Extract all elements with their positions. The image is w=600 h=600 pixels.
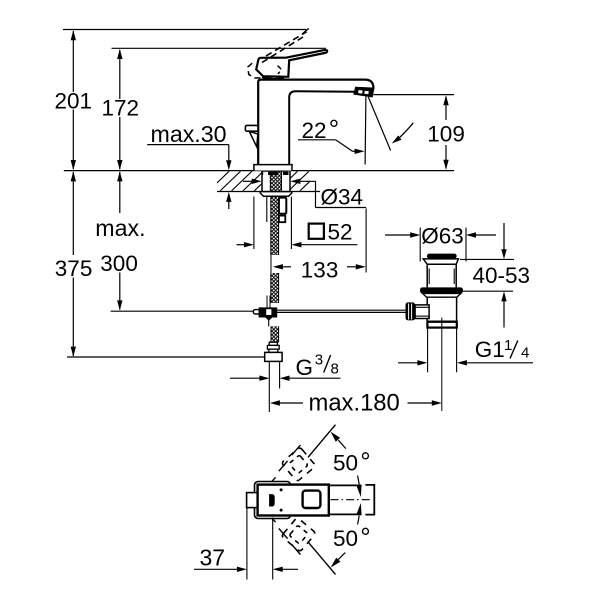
svg-text:50°: 50°: [333, 522, 371, 552]
screw dot upper: [280, 488, 283, 491]
countertop surface line: [64, 170, 454, 172]
svg-text:375: 375: [55, 256, 93, 281]
drain body: [427, 297, 456, 321]
screw dot lower: [280, 509, 283, 512]
threaded shank through counter: [262, 171, 291, 192]
dimension max.180 horizontal: [270, 390, 442, 417]
dimension 172 vertical: [102, 49, 140, 170]
dimension 201 vertical: [55, 30, 93, 170]
svg-text:max.180: max.180: [309, 390, 400, 417]
svg-text:max.: max.: [95, 215, 145, 241]
drain neck: [427, 264, 456, 287]
extension line hose connector level: [67, 356, 265, 358]
upper 50 degree ray: [272, 425, 346, 482]
dimension 22 degree leader: [298, 114, 365, 154]
pop-up rod tee fitting and rod: [111, 296, 406, 327]
faucet handle lever: [256, 50, 327, 79]
lower 50 degree arc arrow: [356, 503, 361, 525]
faucet body section: [258, 485, 329, 516]
svg-text:Ø34: Ø34: [321, 185, 364, 210]
dimension 133 horizontal: [273, 209, 366, 283]
svg-text:172: 172: [102, 96, 140, 121]
dimension max.30 leader: [147, 121, 231, 209]
svg-text:37: 37: [200, 544, 226, 570]
mounting nut: [260, 192, 292, 197]
handle rotated position lower dashed: [281, 517, 316, 552]
svg-text:40-53: 40-53: [473, 263, 531, 288]
svg-text:G1: G1: [475, 337, 505, 362]
dimension diameter 34 leader: [243, 179, 366, 210]
svg-text:300: 300: [100, 251, 138, 276]
lower 50 degree ray: [272, 518, 345, 574]
water stream vertical line: [364, 97, 367, 165]
countertop hatching: [206, 169, 346, 194]
dimension G3/8 thread: [230, 352, 341, 381]
drain washer: [423, 293, 461, 297]
dimension G1 1/4 thread: [398, 337, 533, 366]
countertop bottom line: [217, 191, 320, 193]
extension line top of faucet (172): [112, 47, 327, 49]
upper 50 degree arc arrow: [356, 476, 361, 498]
svg-text:1: 1: [504, 337, 512, 354]
svg-text:50°: 50°: [333, 447, 371, 477]
faucet body outline: [258, 80, 373, 165]
svg-text:133: 133: [301, 257, 339, 282]
svg-text:8: 8: [331, 361, 339, 378]
dimension diameter 63: [385, 224, 496, 262]
pop-up lift rod knob: [245, 125, 258, 146]
drain tailpiece G1 1/4: [428, 328, 457, 373]
drain lever knob: [406, 302, 430, 320]
escutcheon base square: [255, 482, 291, 519]
dimension 375 vertical: [55, 171, 93, 356]
svg-text:109: 109: [427, 122, 465, 147]
drain center line: [441, 318, 443, 412]
svg-text:201: 201: [55, 89, 93, 114]
cartridge square: [303, 491, 321, 508]
extension line top of raised handle (201): [63, 29, 306, 31]
dimension 40-53 vertical: [460, 223, 530, 328]
pointer arrow to water stream: [392, 123, 414, 144]
svg-text:G: G: [296, 355, 314, 380]
dimension 37 horizontal: [194, 508, 298, 580]
svg-text:Ø63: Ø63: [421, 224, 464, 249]
water stream angled line: [368, 97, 390, 151]
hose end with G3/8 connector nut: [265, 326, 282, 412]
lever center line: [331, 499, 371, 501]
dimension square 52: [237, 197, 358, 250]
faucet handle raised position dashed: [248, 28, 309, 78]
lever shaft top view: [329, 485, 362, 514]
svg-text:3: 3: [315, 352, 323, 369]
dimension max.300 vertical: [95, 171, 145, 310]
faucet base plate: [254, 165, 292, 171]
flexible supply hose braided: [270, 171, 281, 303]
drain flange: [423, 259, 458, 264]
dimension 109 vertical: [373, 95, 464, 170]
pop-up rod guide below nut: [267, 196, 287, 222]
lever end cap: [365, 485, 374, 515]
svg-text:52: 52: [328, 220, 353, 245]
hose hole: [270, 495, 275, 506]
svg-text:max.30: max.30: [151, 121, 227, 147]
spout aerator: [354, 88, 373, 97]
drain plug cap: [427, 254, 457, 259]
svg-text:4: 4: [521, 345, 529, 362]
drain bottom coupling: [427, 322, 456, 328]
handle rotated position upper dashed: [281, 447, 316, 482]
drain locknut: [420, 287, 463, 293]
rear tab: [247, 493, 258, 508]
